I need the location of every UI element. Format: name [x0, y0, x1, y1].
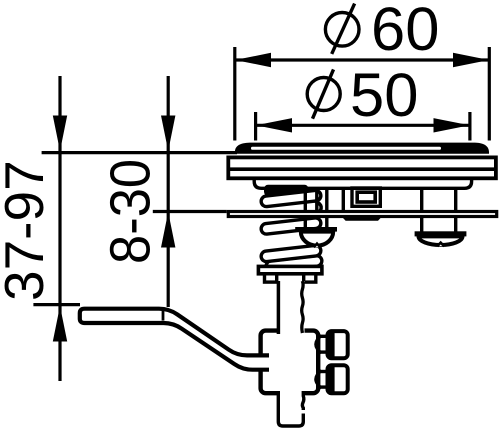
- svg-text:50: 50: [350, 61, 418, 130]
- svg-text:37-97: 37-97: [0, 160, 55, 301]
- svg-text:60: 60: [371, 0, 439, 64]
- svg-text:8-30: 8-30: [99, 159, 162, 264]
